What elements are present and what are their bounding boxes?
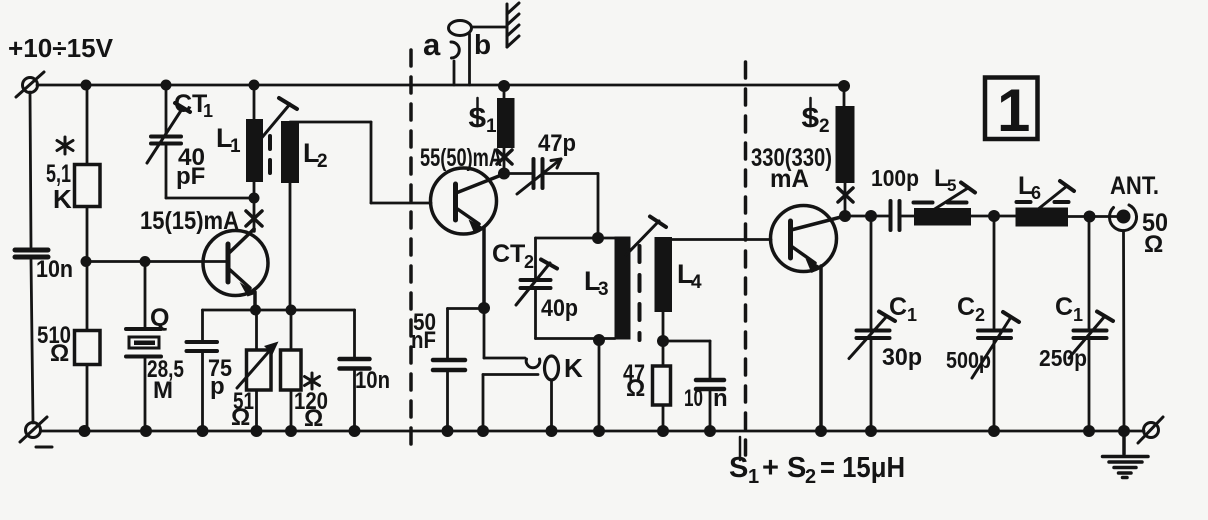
- junction rail x84: [79, 425, 91, 437]
- inductor L3: [615, 237, 631, 340]
- svg-text:2: 2: [975, 305, 985, 325]
- svg-text:CT: CT: [492, 240, 525, 268]
- wire link to chassis: [472, 26, 508, 29]
- svg-text:S: S: [729, 452, 748, 484]
- choke S2 slash: [809, 98, 812, 126]
- capacitor 10n left: [15, 250, 48, 257]
- junction top rail x254: [249, 80, 260, 91]
- junction base node left: [81, 256, 92, 267]
- choke S2: [836, 86, 855, 183]
- svg-text:10n: 10n: [36, 256, 73, 283]
- junction crystal tap: [140, 256, 151, 267]
- svg-text:1: 1: [1073, 305, 1083, 325]
- transistor Q3: [771, 206, 846, 432]
- junction Q3 collector node: [839, 210, 851, 222]
- svg-text:K: K: [564, 353, 583, 383]
- svg-text:4: 4: [691, 272, 702, 293]
- tuning arrow L5: [930, 183, 975, 213]
- junction rail x551: [546, 425, 558, 437]
- svg-text:n: n: [713, 385, 728, 412]
- svg-text:2: 2: [819, 116, 830, 137]
- junction Q2 emitter node: [478, 302, 490, 314]
- junction S1 top: [498, 80, 510, 92]
- junction rail x291: [285, 425, 297, 437]
- current point X3 330(330)mA: [838, 183, 853, 215]
- svg-text:3: 3: [598, 279, 609, 300]
- variable capacitor 47p: [504, 159, 598, 194]
- svg-text:+10÷15V: +10÷15V: [8, 33, 114, 63]
- junction C30p tap: [865, 210, 877, 222]
- terminal minus supply: [20, 417, 52, 447]
- svg-text:1: 1: [230, 136, 241, 157]
- svg-text:= 15μH: = 15μH: [820, 452, 905, 484]
- resistor 120 ohm: [281, 310, 302, 431]
- key jack K upper contact: [484, 308, 525, 358]
- tuning arrow L1 L2: [259, 98, 297, 141]
- junction rail x256: [251, 425, 263, 437]
- resistor 47 ohm: [653, 341, 671, 431]
- junction top rail x86: [81, 80, 92, 91]
- svg-text:K: K: [53, 184, 72, 214]
- svg-text:2: 2: [317, 151, 328, 172]
- transistor Q2: [431, 168, 505, 308]
- trimmer capacitor 75p: [187, 310, 218, 431]
- inductor L1: [246, 85, 263, 198]
- svg-text:+ S: + S: [762, 452, 806, 484]
- svg-text:250p: 250p: [1039, 345, 1087, 371]
- junction rail x821: [815, 425, 827, 437]
- crystal Q 28.5M: [126, 262, 161, 432]
- junction L1 bottom: [249, 193, 260, 204]
- svg-text:10: 10: [684, 385, 703, 412]
- tank bottom wire: [536, 337, 616, 340]
- junction rail x663: [657, 425, 669, 437]
- capacitor 10n output: [663, 341, 724, 431]
- core dashes L3 L4: [638, 246, 642, 340]
- junction emitter node: [250, 305, 261, 316]
- key jack plug wire: [550, 380, 553, 431]
- wire tank to rail: [598, 339, 601, 432]
- junction rail x146: [140, 425, 152, 437]
- junction rail x483: [477, 425, 489, 437]
- link plug ellipse: [449, 21, 472, 36]
- svg-text:500p: 500p: [946, 347, 991, 373]
- wire emitter node: [203, 309, 355, 312]
- transistor Q1: [203, 229, 268, 310]
- inductor L5: [914, 208, 971, 226]
- svg-text:2: 2: [524, 252, 534, 272]
- current point X1 15(15)mA: [246, 198, 262, 231]
- choke S1: [497, 86, 515, 148]
- wire Q1 base: [86, 260, 226, 263]
- terminal ground right: [1138, 417, 1163, 443]
- terminal plus supply: [16, 72, 44, 97]
- wire bottom ground rail: [41, 430, 1144, 433]
- core dashes L1 L2: [268, 136, 272, 178]
- variable capacitor C1 30p: [849, 216, 895, 431]
- formula S1 slash: [739, 437, 742, 460]
- junction L6 right: [1084, 211, 1096, 223]
- svg-text:5: 5: [947, 176, 956, 195]
- svg-text:Ω: Ω: [626, 375, 645, 402]
- svg-text:1: 1: [486, 116, 497, 137]
- variable capacitor C1 250p: [1069, 217, 1113, 432]
- capacitor 50nF: [433, 309, 484, 432]
- divider dashed line 2: [744, 62, 748, 455]
- key jack plug: [545, 356, 559, 380]
- box figure 1: [985, 78, 1038, 140]
- junction L5 right: [988, 210, 1000, 222]
- svg-text:mA: mA: [770, 165, 809, 193]
- inductor L4: [655, 237, 673, 341]
- trimmer capacitor CT2 40p: [516, 238, 557, 339]
- resistor 5.1K: [75, 85, 101, 262]
- svg-text:1: 1: [997, 77, 1030, 144]
- junction top rail x166: [161, 80, 172, 91]
- junction L4 bottom: [657, 335, 669, 347]
- link terminal b: [468, 34, 471, 85]
- variable capacitor C2 500p: [972, 216, 1019, 431]
- wire collector node right: [845, 215, 889, 218]
- tuning arrow L6: [1037, 181, 1074, 210]
- junction rail x710: [704, 425, 716, 437]
- svg-text:100p: 100p: [871, 165, 919, 191]
- antenna connector ANT: [1109, 205, 1136, 231]
- junction rail x994: [988, 425, 1000, 437]
- power label +10..15V: [8, 33, 114, 63]
- divider dashed line 1: [409, 50, 413, 449]
- label a b: [423, 27, 491, 62]
- svg-text:40p: 40p: [541, 295, 578, 322]
- junction rail x871: [865, 425, 877, 437]
- wire L5 to L6: [971, 215, 1016, 218]
- wire L6 to antenna: [1068, 215, 1117, 218]
- junction emitter L2: [286, 305, 297, 316]
- svg-text:1: 1: [907, 305, 917, 325]
- label K: [564, 353, 583, 383]
- wire top rail: [37, 84, 845, 87]
- capacitor 100p: [891, 201, 915, 230]
- wire L2 top to Q2 base: [290, 122, 431, 203]
- junction rail x202: [197, 425, 209, 437]
- svg-text:pF: pF: [176, 163, 205, 190]
- junction Q2 collector node: [498, 168, 510, 180]
- earth ground: [1103, 431, 1149, 478]
- junction S2 top: [838, 80, 850, 92]
- wire antenna to rail: [1122, 231, 1125, 432]
- svg-text:1: 1: [748, 466, 759, 488]
- link terminal a: [451, 42, 459, 85]
- formula S1+S2=15uH: [729, 452, 905, 488]
- inductor L2: [281, 121, 299, 310]
- svg-text:Ω: Ω: [304, 405, 323, 432]
- svg-text:Ω: Ω: [1144, 231, 1163, 258]
- svg-text:47p: 47p: [538, 130, 576, 157]
- junction tank top: [592, 232, 604, 244]
- current point X2 55(50)mA: [497, 148, 512, 173]
- trimmer resistor 51 ohm: [237, 310, 279, 431]
- trimmer capacitor CT1 40pF: [147, 85, 254, 198]
- junction rail x1089: [1083, 425, 1095, 437]
- svg-text:a: a: [423, 27, 441, 62]
- svg-text:10n: 10n: [355, 367, 390, 394]
- svg-text:Ω: Ω: [231, 404, 250, 431]
- junction rail x354: [349, 425, 361, 437]
- capacitor 10n emitter: [340, 310, 370, 431]
- svg-text:C: C: [957, 293, 975, 321]
- svg-text:nF: nF: [411, 327, 436, 354]
- wire left branch: [30, 92, 33, 423]
- core dashes L5: [914, 201, 967, 205]
- svg-text:M: M: [153, 377, 173, 404]
- choke S1 slash: [476, 98, 479, 126]
- svg-text:1: 1: [203, 101, 213, 121]
- svg-text:Q: Q: [150, 304, 169, 332]
- junction rail x447: [442, 425, 454, 437]
- svg-text:ANT.: ANT.: [1110, 172, 1159, 200]
- core dashes L6: [1017, 200, 1069, 204]
- junction rail x599: [593, 425, 605, 437]
- resistor 510 ohm: [75, 262, 101, 432]
- junction rail x1124: [1118, 425, 1130, 437]
- tank top wire: [536, 237, 616, 240]
- wire 47p to tank: [597, 174, 600, 239]
- key jack hook: [526, 359, 540, 368]
- svg-text:b: b: [474, 29, 491, 60]
- svg-text:C: C: [1055, 293, 1073, 321]
- inductor L6: [1016, 208, 1069, 227]
- svg-text:2: 2: [805, 466, 816, 488]
- svg-text:6: 6: [1031, 183, 1041, 203]
- chassis hatch wall: [507, 3, 519, 47]
- svg-text:Ω: Ω: [50, 340, 69, 367]
- key jack lower contact: [483, 375, 538, 432]
- junction tank bottom: [593, 334, 605, 346]
- svg-text:C: C: [889, 293, 907, 321]
- tuning arrow L3 L4: [626, 217, 666, 256]
- wire L4 to Q3 base: [663, 238, 771, 241]
- svg-text:30p: 30p: [882, 344, 922, 371]
- svg-text:p: p: [210, 373, 225, 400]
